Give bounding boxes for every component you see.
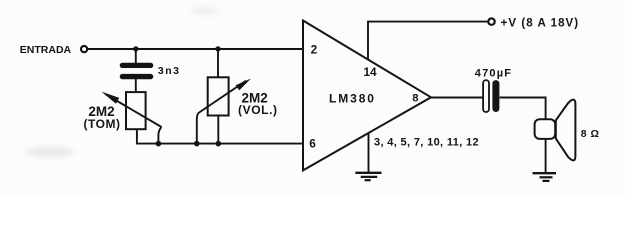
svg-text:ENTRADA: ENTRADA [20, 44, 72, 56]
svg-text:14: 14 [364, 65, 378, 79]
svg-text:8: 8 [412, 93, 418, 105]
svg-text:+V (8 A 18V): +V (8 A 18V) [501, 17, 580, 29]
svg-text:470µF: 470µF [475, 67, 512, 79]
svg-text:3, 4, 5, 7, 10, 11, 12: 3, 4, 5, 7, 10, 11, 12 [374, 136, 479, 148]
svg-text:(TOM): (TOM) [84, 117, 121, 131]
svg-text:LM380: LM380 [329, 91, 376, 105]
svg-text:3n3: 3n3 [158, 65, 181, 77]
svg-text:(VOL.): (VOL.) [238, 103, 278, 117]
svg-text:2: 2 [311, 43, 318, 57]
svg-text:6: 6 [309, 137, 316, 151]
svg-text:8 Ω: 8 Ω [581, 128, 600, 140]
